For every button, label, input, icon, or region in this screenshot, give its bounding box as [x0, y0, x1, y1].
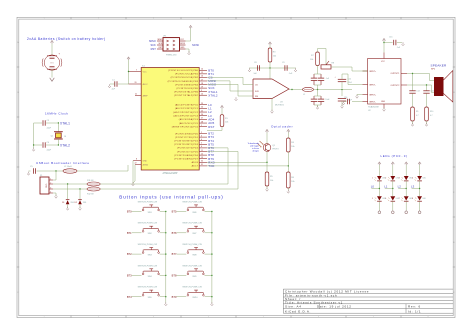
wire [314, 95, 321, 97]
wire [412, 121, 414, 124]
svg-text:10k: 10k [273, 56, 276, 58]
wire out2 [407, 84, 427, 86]
svg-text:(PCINT6/XTAL1)PB6: (PCINT6/XTAL1)PB6 [174, 90, 199, 93]
svg-text:BT9: BT9 [172, 295, 177, 299]
svg-text:2: 2 [201, 132, 202, 134]
junction [406, 188, 407, 189]
resistor R11 [87, 182, 100, 186]
potentiometer R8 [321, 65, 331, 69]
wire [266, 133, 268, 144]
svg-text:L2: L2 [398, 185, 402, 189]
svg-text:AVCC: AVCC [143, 83, 149, 86]
wire [221, 127, 223, 131]
svg-text:X1: X1 [40, 175, 42, 177]
ground C9 [295, 68, 297, 70]
svg-text:R9: R9 [416, 111, 418, 113]
wire [426, 93, 428, 107]
svg-text:SWITCH_PUSH_CW: SWITCH_PUSH_CW [138, 223, 158, 225]
wire [314, 89, 353, 91]
svg-text:(PCINT4/MISO)PB4: (PCINT4/MISO)PB4 [175, 84, 199, 86]
ground usb [55, 195, 57, 197]
ground buttons right [211, 302, 213, 304]
svg-text:Date: 19 jul 2012: Date: 19 jul 2012 [317, 305, 352, 309]
capacitor C13e [338, 98, 346, 100]
LED3 [390, 176, 395, 180]
svg-text:28: 28 [201, 121, 203, 123]
svg-text:3V6: 3V6 [70, 202, 73, 204]
wire [378, 165, 380, 176]
wire [341, 101, 343, 106]
battery BT1 [47, 55, 57, 57]
svg-text:SWITCH_PUSH_CW: SWITCH_PUSH_CW [182, 201, 202, 203]
svg-text:10k: 10k [291, 146, 294, 148]
junction [426, 84, 427, 85]
svg-text:11: 11 [201, 150, 203, 152]
wire [405, 189, 407, 197]
capacitor C4 [42, 142, 44, 147]
svg-text:OUTPUT2: OUTPUT2 [390, 85, 399, 87]
svg-text:C16: C16 [344, 97, 347, 99]
capacitor C7 [318, 77, 324, 79]
resistor R1 [220, 115, 224, 127]
wire [271, 99, 273, 112]
wire [51, 69, 53, 77]
wire out1 [407, 73, 430, 75]
svg-text:(ADC4/SDA)PC4: (ADC4/SDA)PC4 [179, 118, 199, 121]
svg-text:24: 24 [201, 107, 203, 109]
ground buttons left [165, 302, 167, 304]
wire [51, 44, 53, 56]
svg-text:(ADC5/SCL)PC5: (ADC5/SCL)PC5 [179, 122, 199, 125]
wire MOSI-SDI [207, 80, 230, 82]
junction [55, 170, 56, 171]
wire [363, 70, 368, 72]
wire [34, 122, 42, 124]
svg-text:Q2: Q2 [51, 136, 54, 138]
ground D2 [79, 207, 81, 209]
svg-text:GND: GND [180, 47, 185, 49]
wire opto1 [207, 161, 267, 163]
wire CS [207, 76, 243, 78]
wire [419, 189, 421, 197]
ground D1 [67, 207, 69, 209]
capacitor C15 [393, 40, 395, 45]
resistor R6 [287, 172, 291, 188]
svg-text:3V6: 3V6 [83, 202, 86, 204]
wire [57, 123, 59, 132]
svg-text:L3: L3 [411, 185, 415, 189]
wire [392, 165, 394, 176]
svg-text:(PCINT1/OC1A)PB1: (PCINT1/OC1A)PB1 [175, 73, 199, 76]
svg-text:SW3: SW3 [148, 255, 152, 257]
svg-text:BT5: BT5 [172, 210, 177, 214]
svg-text:designs: designs [252, 150, 259, 152]
svg-text:PHOTO: PHOTO [272, 148, 279, 150]
svg-text:XTAL2: XTAL2 [60, 144, 70, 148]
svg-text:3: 3 [201, 135, 202, 137]
wire [344, 101, 346, 103]
ground amp [383, 108, 385, 110]
svg-text:(PCINT18/INT0)PD2: (PCINT18/INT0)PD2 [174, 141, 198, 143]
isp header JP1 [163, 38, 180, 51]
svg-text:6: 6 [201, 146, 202, 148]
resistor R7 [316, 52, 320, 66]
wire [79, 189, 81, 199]
svg-text:1: 1 [372, 178, 373, 180]
svg-text:(PCINT22/AIN0)PD6: (PCINT22/AIN0)PD6 [174, 154, 198, 157]
power VCC opto2 [287, 131, 289, 133]
svg-text:C4: C4 [47, 142, 49, 144]
ground R6 [287, 190, 289, 192]
wire TXD route [207, 151, 238, 153]
svg-text:15: 15 [201, 72, 203, 74]
svg-text:26: 26 [201, 114, 203, 116]
wire [314, 73, 321, 75]
svg-text:R11 68: R11 68 [87, 180, 94, 182]
wire dac out [289, 89, 303, 91]
wire [118, 83, 129, 85]
wire [383, 42, 385, 53]
junction [128, 71, 129, 72]
svg-text:8: 8 [412, 198, 413, 200]
svg-text:4: 4 [50, 191, 51, 193]
junction [383, 42, 384, 43]
wire [384, 42, 393, 44]
capacitor C5 [32, 168, 34, 173]
svg-text:INPUT-: INPUT- [369, 101, 376, 103]
wire [221, 109, 223, 115]
svg-text:SWITCH_PUSH_CW: SWITCH_PUSH_CW [138, 287, 158, 289]
svg-text:D1: D1 [62, 202, 64, 204]
wire [378, 189, 380, 197]
svg-text:(PCINT19/INT1)PD3: (PCINT19/INT1)PD3 [174, 144, 198, 146]
svg-text:1: 1 [50, 178, 51, 180]
wire in3 gnd [357, 94, 363, 96]
ground C5 [28, 172, 30, 174]
svg-text:SWITCH_PUSH_CW: SWITCH_PUSH_CW [138, 244, 158, 246]
wire [397, 42, 402, 44]
svg-text:3: 3 [50, 187, 51, 189]
LED8 [417, 196, 422, 200]
svg-text:OUTPUT1: OUTPUT1 [390, 73, 399, 75]
junction [269, 67, 270, 68]
svg-text:(PCINT5/SCK)PB5: (PCINT5/SCK)PB5 [176, 88, 198, 90]
wire [426, 121, 428, 124]
svg-text:SW2: SW2 [148, 233, 152, 235]
wire [53, 192, 56, 194]
wire [266, 152, 268, 173]
svg-text:SWITCH_PUSH_CW: SWITCH_PUSH_CW [182, 223, 202, 225]
ground led1 [392, 209, 394, 212]
diode D1 zener [66, 200, 70, 204]
inductor L2 ferrite [63, 169, 77, 173]
svg-text:12: 12 [201, 153, 203, 155]
svg-text:BT1: BT1 [127, 231, 132, 235]
wire [53, 188, 87, 190]
wire [378, 181, 380, 189]
svg-text:MCP4921: MCP4921 [275, 105, 285, 107]
power VCC R3 [269, 43, 271, 45]
svg-text:2: 2 [50, 182, 51, 184]
diode D2 zener [78, 200, 82, 204]
svg-text:SW8: SW8 [192, 255, 196, 257]
svg-text:(PCINT21/T1)PD5: (PCINT21/T1)PD5 [177, 151, 199, 153]
svg-text:Size: A4: Size: A4 [285, 305, 302, 309]
svg-text:19: 19 [201, 86, 203, 88]
svg-text:VCC: VCC [143, 71, 148, 73]
junction [412, 73, 413, 74]
svg-text:C12: C12 [348, 79, 351, 81]
svg-text:BT0: BT0 [127, 210, 132, 214]
ground C16 [343, 101, 345, 103]
svg-text:2xAA Batteries (Switch on batt: 2xAA Batteries (Switch on battery holder… [27, 37, 106, 41]
mcu left pins [129, 71, 142, 73]
wire [419, 181, 421, 189]
ground amp in [356, 95, 358, 97]
wire RXD route [207, 147, 228, 149]
wire vdd rail [249, 67, 296, 69]
svg-text:10k: 10k [270, 180, 273, 182]
svg-text:21: 21 [135, 94, 137, 96]
svg-text:10k: 10k [291, 181, 294, 183]
svg-text:(PCINT3/OC2A/MOSI)PB3: (PCINT3/OC2A/MOSI)PB3 [168, 80, 199, 83]
svg-text:BT6: BT6 [172, 231, 177, 235]
svg-text:C3: C3 [47, 120, 49, 122]
wire [190, 29, 192, 42]
svg-text:16: 16 [64, 136, 66, 138]
svg-text:SW4: SW4 [148, 276, 152, 278]
usb connector X1 [40, 177, 49, 194]
junction [419, 188, 420, 189]
svg-text:6: 6 [385, 198, 386, 200]
svg-text:GND: GND [381, 101, 386, 103]
svg-text:10k: 10k [310, 59, 313, 61]
svg-text:(PCINT20/T0)PD4: (PCINT20/T0)PD4 [177, 148, 199, 150]
svg-text:R12 68: R12 68 [87, 194, 94, 196]
svg-text:INPUT+: INPUT+ [369, 94, 377, 96]
wire [412, 93, 414, 107]
svg-text:7: 7 [136, 70, 137, 72]
wire [33, 123, 35, 148]
wire [412, 74, 414, 91]
capacitor C14 [423, 90, 429, 92]
capacitor C12 elco [338, 78, 346, 80]
svg-text:5: 5 [201, 143, 202, 145]
junction [341, 89, 342, 90]
ground C15 [402, 42, 404, 44]
svg-text:C13: C13 [416, 91, 419, 93]
svg-text:SDI: SDI [255, 96, 259, 98]
junction [79, 188, 80, 189]
ground filter1 [317, 106, 319, 108]
svg-text:RST: RST [208, 125, 214, 129]
capacitor C1 [114, 81, 116, 86]
ground C1 [109, 84, 111, 86]
svg-text:4: 4 [412, 178, 413, 180]
svg-text:GND: GND [143, 161, 148, 163]
svg-text:7: 7 [399, 198, 400, 200]
resistor R5 [265, 172, 269, 186]
title block [283, 288, 453, 290]
svg-text:MISO: MISO [158, 39, 163, 41]
ground led0 [378, 209, 380, 212]
junction [291, 89, 292, 90]
svg-text:LEDs (PC0..3): LEDs (PC0..3) [381, 154, 408, 158]
svg-text:BT2: BT2 [127, 252, 132, 256]
mcu right pins [199, 69, 207, 71]
LED2 [377, 196, 382, 200]
svg-text:AREF: AREF [143, 94, 149, 97]
svg-text:SWITCH_PUSH_CW: SWITCH_PUSH_CW [138, 201, 158, 203]
svg-text:SW6: SW6 [192, 212, 196, 214]
svg-text:(ADC2/PCINT10)PC2: (ADC2/PCINT10)PC2 [173, 111, 198, 114]
svg-text:SPEAKER: SPEAKER [431, 63, 447, 67]
svg-text:2: 2 [385, 178, 386, 180]
svg-text:14: 14 [201, 69, 203, 71]
svg-text:ADC7: ADC7 [192, 165, 199, 168]
svg-text:(ADC0/PCINT8)PC0: (ADC0/PCINT8)PC0 [175, 104, 199, 107]
power VCC isp [190, 27, 192, 29]
svg-text:Rev: 6: Rev: 6 [408, 305, 421, 309]
wire [53, 179, 56, 181]
power VCC mcu [128, 58, 130, 60]
svg-text:31: 31 [201, 164, 203, 166]
wire opto2 [207, 165, 288, 167]
ground R5 [266, 188, 268, 190]
wire pot out [331, 66, 352, 68]
wire in2 [342, 73, 348, 75]
svg-text:USBoot Bootloader Interface: USBoot Bootloader Interface [36, 161, 90, 165]
wire [29, 170, 31, 172]
svg-text:3: 3 [399, 178, 400, 180]
wire [317, 49, 319, 53]
junction [33, 144, 34, 145]
svg-text:JP1: JP1 [163, 36, 166, 38]
power VCC led2 [405, 163, 407, 165]
svg-text:XTAL1: XTAL1 [60, 122, 70, 126]
ground clock [33, 148, 35, 150]
svg-text:C14: C14 [430, 91, 433, 93]
wire [67, 184, 69, 199]
wire [341, 74, 343, 79]
power VCC led0 [378, 163, 380, 165]
svg-text:XTAL2: XTAL2 [208, 93, 218, 97]
svg-text:USB: USB [45, 184, 47, 189]
capacitor C3 [42, 120, 44, 125]
wire [269, 45, 271, 48]
wire [34, 144, 42, 146]
svg-text:10: 10 [201, 94, 203, 96]
svg-text:Id: 1/1: Id: 1/1 [408, 309, 421, 313]
svg-text:16: 16 [201, 76, 203, 78]
inductor L1 [303, 87, 314, 91]
capacitor C6 [311, 77, 317, 79]
svg-text:10k: 10k [225, 122, 228, 124]
junction [67, 183, 68, 184]
ground isp [188, 51, 190, 53]
svg-text:22: 22 [135, 163, 137, 165]
svg-text:BT7: BT7 [172, 252, 177, 256]
svg-text:SCK: SCK [150, 43, 156, 47]
svg-text:25: 25 [201, 110, 203, 112]
svg-text:8: 8 [136, 159, 137, 161]
capacitor C10 [311, 98, 317, 100]
junction [266, 162, 267, 163]
ground led3 [419, 209, 421, 212]
wire [392, 181, 394, 189]
svg-text:SW10: SW10 [192, 297, 197, 299]
wire [77, 170, 128, 172]
svg-text:BT3: BT3 [127, 274, 132, 278]
ground battery [50, 78, 55, 81]
wire [186, 48, 190, 50]
svg-text:C15: C15 [389, 37, 392, 39]
svg-text:KiCad E.D.A.: KiCad E.D.A. [285, 309, 311, 313]
wire [53, 183, 87, 185]
wire RXD [100, 183, 228, 185]
ground dac [271, 110, 273, 112]
svg-text:AGND: AGND [143, 163, 149, 166]
capacitor C8 [256, 65, 258, 70]
svg-text:SWITCH_PUSH_CW: SWITCH_PUSH_CW [182, 265, 202, 267]
svg-text:SWITCH_PUSH_CW: SWITCH_PUSH_CW [182, 244, 202, 246]
svg-text:(PCINT17/TXD)PD1: (PCINT17/TXD)PD1 [175, 137, 199, 139]
svg-text:MOSI: MOSI [180, 43, 185, 45]
power VCC led1 [392, 163, 394, 165]
svg-text:Optoloader: Optoloader [271, 125, 293, 129]
wire [46, 144, 58, 146]
svg-text:(ADC1/PCINT9)PC1: (ADC1/PCINT9)PC1 [175, 107, 199, 110]
power VCC led3 [419, 163, 421, 165]
wire [405, 165, 407, 176]
svg-text:16MHz Clock: 16MHz Clock [45, 112, 68, 116]
wire [317, 66, 319, 75]
svg-text:30: 30 [201, 161, 203, 163]
svg-text:(RESET/PCINT14)PC6: (RESET/PCINT14)PC6 [172, 127, 199, 129]
wire SCK [207, 83, 238, 85]
wire [57, 139, 59, 145]
wire [287, 133, 289, 139]
resistor R3 [268, 48, 272, 62]
resistor R10 [425, 107, 429, 121]
wire [128, 60, 130, 84]
capacitor C16 [346, 99, 348, 104]
wire [46, 122, 58, 124]
resistor R9 [411, 107, 415, 121]
svg-text:(PCINT16/RXD)PD0: (PCINT16/RXD)PD0 [175, 133, 199, 135]
capacitor C11 [318, 98, 324, 100]
wire button bus right [211, 212, 213, 304]
wire TXD [100, 188, 238, 190]
svg-text:L0: L0 [371, 185, 375, 189]
wire [287, 188, 289, 191]
wire [383, 108, 385, 109]
power VCC battery [51, 42, 53, 44]
svg-text:20: 20 [135, 82, 137, 84]
svg-text:(PCINT23/AIN1)PD7: (PCINT23/AIN1)PD7 [174, 158, 198, 161]
resistor R4 [287, 138, 291, 152]
svg-text:D2: D2 [75, 202, 77, 204]
svg-text:(PCINT7/XTAL2)PB7: (PCINT7/XTAL2)PB7 [174, 94, 199, 97]
svg-text:1: 1 [201, 125, 202, 127]
power VCC opto1 [266, 131, 268, 133]
svg-text:TDA2822M: TDA2822M [368, 106, 379, 109]
svg-text:17: 17 [201, 79, 203, 81]
svg-text:ADC6: ADC6 [192, 161, 199, 164]
ground LDAC [235, 97, 237, 99]
svg-text:23: 23 [201, 103, 203, 105]
power VCC amp [383, 40, 385, 42]
